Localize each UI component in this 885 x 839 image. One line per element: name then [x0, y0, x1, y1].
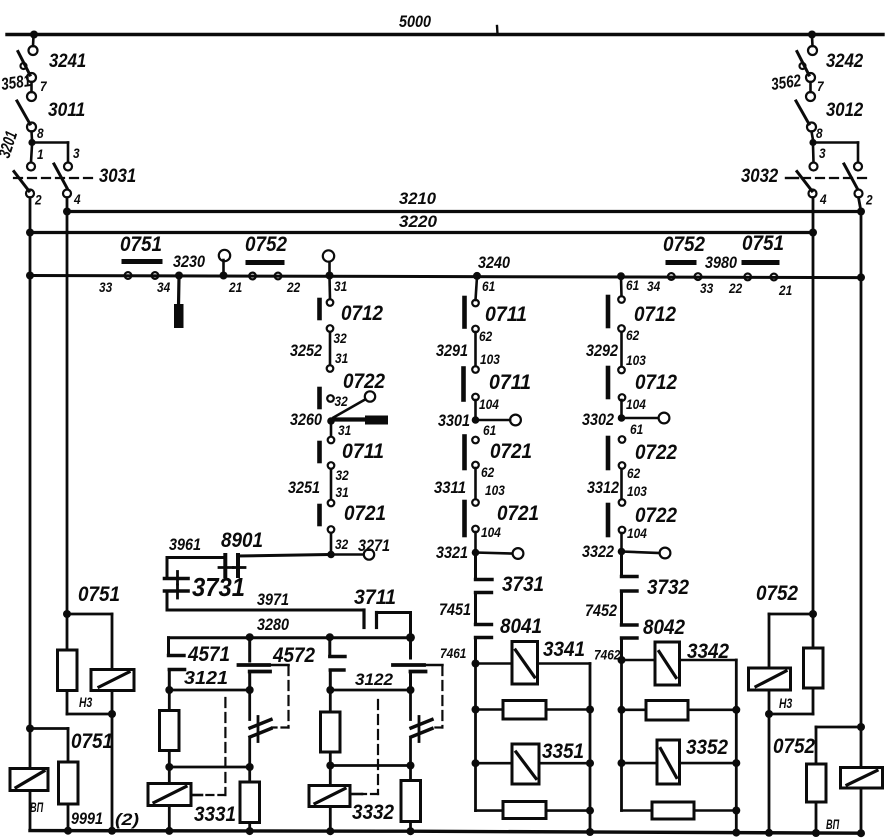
- wire 3122: [330, 689, 410, 692]
- svg-text:32: 32: [335, 394, 349, 409]
- open terminal chain3 F: [659, 413, 670, 424]
- relay H3 left: [91, 670, 134, 715]
- wire K to open terminal chain3: [622, 552, 660, 554]
- svg-text:104: 104: [479, 397, 499, 412]
- wire ladder2 right rail: [735, 660, 738, 833]
- junction bus x816: [812, 829, 820, 837]
- wire 7452 bracket: [622, 591, 638, 625]
- svg-text:0752: 0752: [773, 735, 815, 758]
- junction row767 right: [246, 763, 254, 771]
- junction ladder2 row2 left: [618, 706, 626, 714]
- open terminal chain3 L: [660, 548, 671, 559]
- mechanical link 3031 (dashed): [14, 177, 95, 179]
- switch 3031 pole B: [54, 163, 72, 198]
- junction bus x769: [765, 829, 773, 837]
- wire 3961: [167, 555, 328, 578]
- wire right rail x861: [859, 198, 862, 212]
- junction row765 left: [326, 762, 334, 770]
- wire chain2 D-E: [474, 400, 477, 417]
- svg-text:103: 103: [480, 352, 500, 367]
- svg-text:0751: 0751: [742, 232, 784, 255]
- svg-text:9991: 9991: [71, 809, 103, 828]
- svg-text:0751: 0751: [71, 730, 113, 753]
- terminal 33 left: [125, 272, 132, 279]
- terminal chain1 J: [328, 526, 335, 533]
- junction ladder2 row3 right: [732, 759, 740, 767]
- svg-text:3341: 3341: [543, 638, 585, 661]
- svg-text:3031: 3031: [99, 166, 136, 187]
- resistor ladder2 row4: [622, 802, 737, 819]
- resistor ladder2 row2: [622, 701, 737, 721]
- terminal chain1 C: [327, 365, 334, 372]
- open terminal chain2 F: [510, 415, 521, 426]
- wire to resistor 0751 lower: [30, 729, 68, 763]
- relay 3351: [476, 744, 591, 784]
- svg-text:61: 61: [630, 422, 643, 437]
- svg-text:Н3: Н3: [79, 695, 93, 710]
- terminal chain1 D: [327, 395, 334, 402]
- svg-text:0712: 0712: [635, 371, 677, 394]
- node junction below 3012: [809, 139, 816, 146]
- junction ladder2 row2 right: [732, 706, 740, 714]
- wire 3252: [329, 332, 332, 365]
- svg-text:4: 4: [819, 192, 827, 207]
- svg-text:3252: 3252: [290, 341, 322, 360]
- contact 0752 left: [248, 260, 282, 265]
- wire terminal bus 3230/3240/3980: [30, 276, 861, 278]
- contact bar 0721b chain2: [462, 502, 467, 535]
- svg-text:2: 2: [865, 193, 873, 208]
- relay 3332: [309, 766, 350, 832]
- terminal chain1 B: [327, 325, 334, 332]
- svg-text:103: 103: [485, 483, 505, 498]
- switch 3032 pole A: [797, 163, 818, 198]
- wire K to open terminal: [334, 553, 363, 556]
- junction terminal line right: [857, 273, 865, 281]
- junction 3121 right: [246, 686, 254, 694]
- svg-text:8: 8: [816, 126, 823, 141]
- svg-text:8901: 8901: [221, 529, 263, 552]
- svg-text:0722: 0722: [635, 441, 677, 464]
- junction chain3 top: [617, 272, 625, 280]
- junction 3322: [618, 548, 626, 556]
- svg-text:3: 3: [819, 146, 826, 161]
- switch 3241: [18, 36, 38, 82]
- terminal chain2 D: [472, 394, 479, 401]
- junction ladder1 row3 right: [586, 759, 594, 767]
- svg-text:3122: 3122: [355, 670, 394, 689]
- svg-text:0711: 0711: [489, 371, 531, 394]
- terminal 33 right: [695, 273, 702, 280]
- wire to contact 2: [813, 143, 858, 162]
- contact bar 0712b chain3: [606, 368, 611, 397]
- resistor 0752 lower: [807, 764, 827, 833]
- junction 3301: [472, 416, 480, 424]
- wire 3971: [167, 593, 364, 611]
- svg-text:31: 31: [335, 351, 348, 366]
- contact bar 0711 chain2: [462, 298, 467, 327]
- junction 7461: [472, 660, 480, 668]
- junction bus x736: [732, 829, 740, 837]
- svg-text:31: 31: [334, 279, 347, 294]
- contact 0751 right: [744, 260, 777, 265]
- junction bus x590: [586, 828, 594, 836]
- svg-text:7462: 7462: [594, 648, 621, 663]
- terminal 22 left: [275, 273, 282, 280]
- svg-text:104: 104: [627, 526, 647, 541]
- contact bar 0722b chain3: [606, 505, 611, 535]
- junction ladder1 row3 left: [472, 759, 480, 767]
- svg-text:0722: 0722: [635, 504, 677, 527]
- svg-text:31: 31: [336, 485, 349, 500]
- resistor 0751 lower: [59, 762, 79, 830]
- wire 5000 (top bus): [7, 26, 883, 35]
- wire chain2 J-K: [474, 532, 477, 550]
- relay 3352: [622, 740, 737, 784]
- wire from 3012 to node: [812, 132, 814, 141]
- mechanical link 3032 (dashed): [786, 177, 872, 179]
- svg-text:103: 103: [626, 353, 646, 368]
- svg-text:3332: 3332: [352, 801, 394, 824]
- junction 3122 left: [326, 686, 334, 694]
- svg-text:3331: 3331: [194, 803, 236, 826]
- contact 0752 right: [668, 260, 694, 265]
- junction on 5000 right: [808, 31, 816, 39]
- wire chain2 K down: [474, 555, 477, 578]
- switch 3012: [796, 92, 816, 132]
- contact 4572: [330, 638, 345, 688]
- relay 3342: [622, 642, 737, 685]
- resistor 0751 upper: [58, 614, 78, 714]
- svg-text:ВП: ВП: [30, 800, 43, 815]
- junction 3210 left: [63, 208, 71, 216]
- terminal chain3 J: [619, 527, 626, 534]
- svg-text:3731: 3731: [502, 573, 544, 596]
- contact bar 0722 chain3: [606, 438, 611, 468]
- open terminal chain2 L: [513, 548, 524, 559]
- wire H3 right down: [768, 714, 771, 832]
- junction chain1 top: [326, 272, 334, 280]
- svg-text:3311: 3311: [434, 478, 466, 497]
- terminal 34 right: [668, 273, 675, 280]
- terminal chain2 H: [472, 462, 479, 469]
- wire to contact 1: [31, 145, 32, 162]
- wire chain1 J-K: [330, 533, 333, 552]
- wire to relay H3 right: [769, 614, 813, 668]
- svg-text:32: 32: [335, 537, 349, 552]
- wire chain3 stem: [620, 277, 623, 296]
- svg-text:3280: 3280: [257, 615, 289, 634]
- wire from 3011 to node: [30, 132, 33, 141]
- svg-text:3240: 3240: [478, 253, 510, 272]
- relay H3 right: [749, 668, 791, 714]
- svg-text:2: 2: [34, 193, 42, 208]
- resistor 0752 upper: [804, 614, 824, 714]
- svg-text:Н3: Н3: [779, 696, 793, 711]
- terminal chain3 D: [619, 394, 626, 401]
- junction chain1 K: [327, 551, 335, 559]
- svg-text:0721: 0721: [490, 440, 532, 463]
- resistor in 3122 left branch: [321, 690, 341, 764]
- junction ladder2 row4 right: [732, 807, 740, 815]
- capacitor 8901: [219, 555, 245, 576]
- svg-text:3220: 3220: [399, 212, 438, 231]
- svg-text:3012: 3012: [826, 100, 864, 121]
- svg-text:0712: 0712: [634, 303, 676, 326]
- svg-text:3121: 3121: [184, 668, 228, 688]
- wire join H3 left: [67, 713, 112, 716]
- wire right rail x861 lower: [860, 212, 863, 728]
- junction x813 y614: [809, 610, 817, 618]
- svg-text:62: 62: [479, 329, 493, 344]
- relay VP left: [10, 729, 48, 831]
- svg-text:3032: 3032: [741, 166, 779, 187]
- junction x67 y614: [63, 610, 71, 618]
- svg-text:34: 34: [647, 279, 661, 294]
- svg-text:0721: 0721: [497, 502, 539, 525]
- junction 3280 b: [326, 633, 334, 641]
- junction bus x169: [165, 827, 173, 835]
- junction 3210 right: [857, 208, 865, 216]
- tilted capacitor in 3122 right branch: [411, 690, 433, 764]
- svg-text:3302: 3302: [582, 410, 614, 429]
- svg-text:5000: 5000: [399, 12, 431, 31]
- wire 3562: [809, 82, 812, 92]
- junction H3 right: [765, 710, 773, 718]
- terminal 21 right: [771, 274, 778, 281]
- svg-text:3242: 3242: [826, 51, 864, 72]
- svg-text:21: 21: [778, 283, 792, 298]
- svg-text:1: 1: [37, 147, 44, 162]
- wire chain3 K down: [620, 554, 623, 575]
- junction bus x112: [108, 827, 116, 835]
- svg-text:22: 22: [728, 281, 742, 296]
- wire to contact 3: [812, 145, 815, 162]
- svg-text:31: 31: [338, 423, 351, 438]
- contact bar 0712 chain1: [317, 300, 322, 318]
- junction bus x410: [407, 827, 415, 835]
- dashed link to relay 3331: [191, 665, 289, 795]
- terminal chain1 A: [327, 299, 334, 306]
- wire to open terminal 3301: [476, 419, 511, 422]
- svg-text:3321: 3321: [436, 543, 468, 562]
- svg-text:0711: 0711: [485, 303, 527, 326]
- wire 7462 hook: [622, 638, 638, 660]
- resistor ladder1 row2: [476, 701, 591, 720]
- wire to relay H3 left: [67, 614, 112, 670]
- svg-text:22: 22: [286, 280, 300, 295]
- capacitor 3731: [165, 572, 189, 599]
- svg-text:7452: 7452: [585, 601, 617, 620]
- wire chain3 J-K: [620, 533, 623, 549]
- svg-text:32: 32: [334, 331, 348, 346]
- wire ladder2 left rail: [620, 660, 623, 811]
- svg-text:8042: 8042: [643, 616, 685, 639]
- tilted capacitor in 3121 right branch: [250, 690, 271, 765]
- terminal chain3 G: [619, 436, 626, 443]
- terminal chain1 I: [328, 500, 335, 507]
- wire 3311: [474, 468, 477, 499]
- junction bus x861: [857, 829, 865, 837]
- svg-text:0751: 0751: [78, 583, 120, 606]
- wire right rail x813: [812, 198, 815, 615]
- wire bottom bus 9991: [30, 831, 862, 834]
- terminal chain3 H: [619, 462, 626, 469]
- terminal chain2 I: [472, 499, 479, 506]
- junction terminal line left: [26, 272, 34, 280]
- svg-text:103: 103: [627, 484, 647, 499]
- wire chain2 stem: [476, 277, 478, 300]
- switch arm chain1 D: [334, 400, 366, 418]
- svg-text:3251: 3251: [288, 478, 320, 497]
- svg-text:7461: 7461: [440, 646, 466, 661]
- wire to resistor 0752 lower: [816, 727, 861, 764]
- contact bar 0721 chain1: [317, 506, 322, 524]
- terminal chain3 I: [619, 499, 626, 506]
- svg-text:3312: 3312: [587, 478, 619, 497]
- wire 3121: [169, 689, 249, 692]
- contact 3711: [364, 610, 411, 635]
- terminal chain2 B: [472, 326, 479, 333]
- junction bus x250: [246, 827, 254, 835]
- terminal chain1 G: [328, 437, 335, 444]
- junction 3321: [472, 549, 480, 557]
- svg-text:3241: 3241: [49, 51, 86, 72]
- svg-text:4572: 4572: [272, 644, 315, 667]
- wire 3292: [620, 332, 623, 366]
- junction 3302: [618, 414, 626, 422]
- wire chain1 D-F: [330, 424, 333, 436]
- svg-text:3351: 3351: [542, 740, 584, 763]
- svg-text:0712: 0712: [341, 302, 383, 325]
- svg-text:3961: 3961: [169, 535, 201, 554]
- terminal chain2 J: [472, 526, 479, 533]
- svg-text:3291: 3291: [436, 341, 468, 360]
- junction 3230: [175, 272, 183, 280]
- wire 3581: [30, 82, 33, 92]
- wire 7461 hook: [476, 638, 492, 664]
- contact 4571: [169, 638, 185, 688]
- svg-text:0751: 0751: [120, 233, 162, 256]
- junction bus x330: [326, 827, 334, 835]
- junction bus x68: [64, 827, 72, 835]
- terminal chain2 G: [472, 437, 479, 444]
- svg-text:3292: 3292: [586, 341, 618, 360]
- open terminal chain1 L: [364, 549, 374, 559]
- junction 3260: [327, 417, 335, 425]
- svg-text:32: 32: [336, 468, 350, 483]
- terminal 34 left: [152, 272, 159, 279]
- wire 3312: [620, 469, 623, 499]
- svg-text:0752: 0752: [756, 582, 798, 605]
- wire 3220 bus: [30, 231, 813, 234]
- junction ladder1 row4 right: [586, 807, 594, 815]
- svg-text:104: 104: [481, 525, 501, 540]
- contact bar 0711 chain1: [317, 443, 322, 461]
- contact 0751 left: [124, 259, 160, 264]
- open terminal chain1 E: [365, 391, 375, 401]
- terminal 22 right: [744, 274, 751, 281]
- svg-text:0711: 0711: [342, 440, 384, 463]
- junction H3 left: [108, 710, 116, 718]
- contact bar 0712 chain3: [606, 297, 611, 326]
- wire 7451 bracket: [476, 593, 492, 625]
- svg-text:33: 33: [99, 280, 113, 295]
- wire row767 section1: [169, 766, 249, 769]
- contact 3731 upper hook: [476, 578, 493, 581]
- wire left rail x67: [66, 198, 69, 615]
- junction 3280 c (3711): [406, 633, 415, 642]
- dashed link to relay 3332: [350, 665, 442, 794]
- svg-text:0721: 0721: [344, 502, 386, 525]
- svg-text:4: 4: [73, 192, 81, 207]
- svg-text:0752: 0752: [245, 233, 287, 256]
- svg-text:21: 21: [228, 280, 242, 295]
- terminal chain2 C: [472, 366, 479, 373]
- wire ladder1 left rail: [474, 664, 477, 811]
- stub terminal with circle above line at x223: [219, 250, 230, 274]
- svg-text:8: 8: [37, 126, 44, 141]
- wire to open terminal 3302: [622, 417, 659, 420]
- terminal chain3 B: [618, 325, 625, 332]
- wire H3 left down: [111, 714, 114, 830]
- terminal 21 left: [249, 273, 256, 280]
- junction row765 right: [407, 762, 415, 770]
- junction x30 y728: [26, 725, 34, 733]
- junction 3122 right: [407, 686, 415, 694]
- relay 3341: [476, 642, 591, 685]
- junction at x223: [220, 272, 228, 280]
- junction 3220 right: [809, 229, 817, 237]
- junction 3121 left: [165, 686, 173, 694]
- wire left rail x30: [29, 198, 32, 729]
- contact bar 0722 chain1: [317, 389, 322, 407]
- wire row765 section2: [330, 764, 410, 767]
- svg-text:3980: 3980: [705, 253, 737, 272]
- resistor ladder1 row4: [476, 802, 591, 819]
- svg-text:0752: 0752: [663, 233, 705, 256]
- svg-text:3971: 3971: [257, 590, 289, 609]
- terminal chain3 C: [618, 367, 625, 374]
- wire to contact 3: [32, 143, 68, 162]
- wire 3251: [330, 469, 333, 499]
- junction ladder2 row3 left: [618, 759, 626, 767]
- resistor below cap section1: [240, 767, 260, 831]
- contact bar 0711b chain2: [461, 369, 466, 400]
- svg-text:3732: 3732: [647, 576, 689, 599]
- svg-text:(2): (2): [115, 810, 139, 829]
- svg-text:3301: 3301: [438, 411, 470, 430]
- switch 3032 pole B: [844, 163, 863, 198]
- contact-capacitor right of 4572: [393, 639, 426, 688]
- junction 7462: [618, 656, 626, 664]
- svg-text:61: 61: [482, 279, 495, 294]
- svg-text:3711: 3711: [354, 586, 396, 609]
- svg-text:104: 104: [626, 397, 646, 412]
- junction 3240: [473, 272, 481, 280]
- svg-text:3011: 3011: [48, 100, 85, 121]
- svg-text:61: 61: [626, 278, 639, 293]
- contact-capacitor right of 4571: [239, 638, 271, 688]
- svg-text:3322: 3322: [582, 542, 614, 561]
- svg-text:62: 62: [627, 466, 641, 481]
- relay VP right: [841, 727, 883, 833]
- terminal chain2 A: [472, 300, 479, 307]
- resistor in 3121 left branch: [160, 690, 180, 765]
- flag arrow at 3260: [334, 416, 388, 425]
- terminal chain1 H: [328, 462, 335, 469]
- svg-text:0722: 0722: [343, 370, 385, 393]
